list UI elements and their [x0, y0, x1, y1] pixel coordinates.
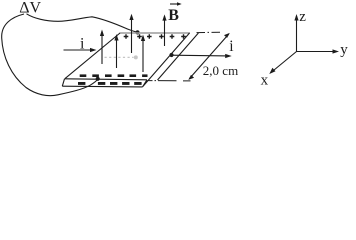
solder dot: top contact on back edge — [135, 30, 139, 34]
wire: loop from ΔV down-left around to front contact dot — [2, 14, 98, 96]
continuation centerline: top dash-dot — [197, 31, 222, 33]
svg-text:i: i — [229, 38, 234, 55]
y axis — [297, 51, 337, 53]
slab: top face left edge — [65, 33, 120, 79]
current arrow left — [64, 49, 95, 51]
slab: front bottom edge — [62, 85, 142, 88]
current lead dot right — [169, 53, 173, 57]
slab: top face back edge (gray) — [120, 32, 191, 34]
svg-text:B: B — [168, 7, 179, 24]
B field arrow 4 — [142, 37, 144, 73]
svg-text:z: z — [299, 9, 306, 25]
svg-text:x: x — [261, 73, 269, 89]
solder dot: front contact — [96, 77, 100, 81]
slab: right cut edge (outer, through C) — [143, 33, 190, 87]
slab: right cut edge (inner second line) — [158, 33, 199, 80]
minus charges on top face along front edge — [80, 74, 148, 77]
slab: left end bevel — [62, 79, 64, 86]
B field arrow 3 (tall) — [131, 16, 133, 54]
current arrow right — [172, 54, 229, 57]
continuation centerline: bottom dash-dot — [149, 80, 191, 82]
gray dashed drift line with gray dot — [105, 56, 134, 58]
B field arrow 5 (tall) — [164, 16, 166, 46]
wire: lead from ΔV rightward to top contact dot — [27, 14, 138, 32]
svg-text:2,0 cm: 2,0 cm — [203, 63, 238, 78]
dimension line 2,0 cm (double arrow) — [189, 34, 229, 79]
B field arrow 2 — [116, 36, 118, 68]
minus charges on front face — [78, 82, 142, 85]
slab: front top edge — [65, 79, 148, 80]
B field arrow 1 — [101, 32, 103, 65]
z axis — [296, 16, 298, 52]
svg-text:y: y — [340, 42, 348, 58]
x axis — [271, 52, 297, 73]
plus charges on top face along back edge — [124, 34, 186, 39]
